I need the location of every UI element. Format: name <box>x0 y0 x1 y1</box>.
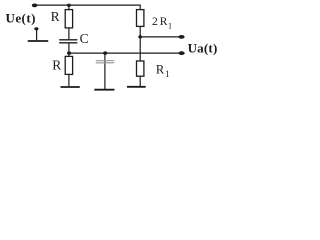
svg-text:R: R <box>51 9 60 24</box>
wire top rail <box>35 5 141 10</box>
ground input: terminal dot <box>34 27 38 30</box>
wire R bottom to C <box>68 28 70 40</box>
wire R1 to ground <box>139 76 141 86</box>
wire mid rail <box>69 52 182 54</box>
svg-text:C: C <box>80 31 89 46</box>
node junction dot mid-left <box>67 51 71 54</box>
svg-text:Ua(t): Ua(t) <box>188 40 218 55</box>
node junction dot divider tap <box>138 35 142 38</box>
wire lower R to ground <box>68 74 70 86</box>
resistor R (bottom) <box>65 56 72 74</box>
node upper output terminal dot <box>178 35 184 39</box>
wire stub to lower R <box>68 53 70 56</box>
svg-text:Ue(t): Ue(t) <box>6 11 36 26</box>
resistor R1 <box>137 61 144 76</box>
wire C to mid node <box>68 43 70 53</box>
wire upper output <box>140 36 181 38</box>
ground under mid capacitor <box>94 89 114 91</box>
ground under R <box>61 86 80 88</box>
node input terminal dot <box>32 4 38 8</box>
node junction dot top of R <box>67 4 71 7</box>
node lower output terminal dot <box>179 51 185 55</box>
ground under R1 <box>127 86 146 88</box>
wire mid-cap lead <box>104 53 106 89</box>
wire 2R1 bottom to R1 top <box>139 26 141 61</box>
svg-text:R: R <box>52 57 61 72</box>
wire stub top R <box>68 5 70 10</box>
ground input: stub and bar <box>36 29 38 41</box>
resistor 2R1 <box>137 10 144 27</box>
node junction dot mid-cap <box>103 51 107 54</box>
resistor R (top) <box>65 10 72 28</box>
capacitor C <box>59 40 77 43</box>
capacitor mid (grey plates) <box>96 61 114 63</box>
